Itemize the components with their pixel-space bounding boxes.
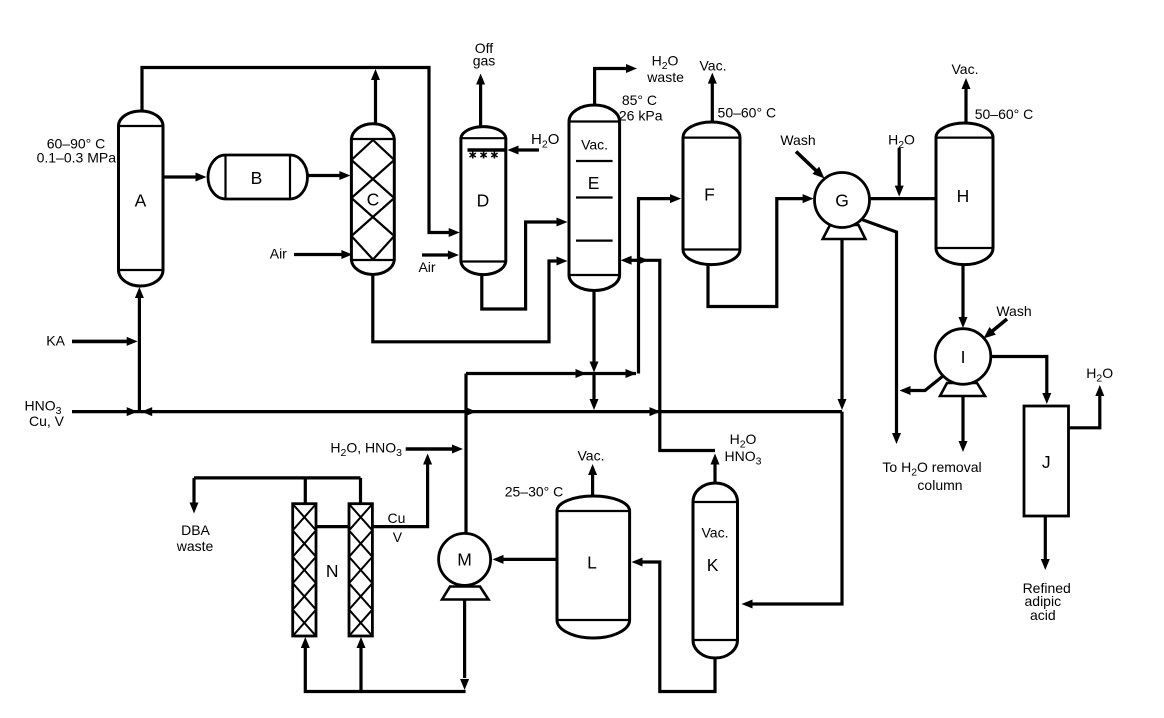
svg-text:column: column	[917, 477, 962, 493]
wire: A to B	[163, 175, 198, 178]
pump M	[442, 587, 489, 600]
vessel E (vacuum still)	[569, 105, 620, 291]
svg-text:Vac.: Vac.	[952, 61, 979, 77]
vessel K (vacuum bleed column)	[693, 483, 738, 658]
wire: F bottoms up into G	[708, 199, 805, 307]
vessel B (horizontal drum)	[208, 155, 308, 199]
svg-text:Vac.: Vac.	[578, 448, 605, 464]
wire: air feed into D	[422, 253, 450, 256]
wire: F vacuum vent	[711, 83, 714, 122]
wire: KA feed line	[72, 340, 129, 344]
vessel J (dryer)	[1024, 406, 1069, 516]
svg-text:Wash: Wash	[780, 132, 815, 148]
pump/centrifuge G	[823, 225, 866, 239]
vessel A (oxidation column)	[119, 111, 164, 286]
wire: G to H	[870, 197, 937, 200]
wire: K bottoms to L	[640, 562, 715, 692]
wire: B to C	[308, 174, 343, 177]
wire: H2O feed onto G-H line	[898, 148, 901, 188]
wire: H vacuum vent	[964, 88, 967, 123]
wire: I bottom discharge arrow	[961, 396, 964, 442]
svg-text:waste: waste	[646, 69, 684, 85]
wire: K overhead vapor arrow	[713, 464, 716, 483]
wire: A overhead line to D inlet	[142, 68, 452, 233]
wire: H2O wash into D spray	[516, 148, 539, 151]
wire: C bottoms to E lower feed	[373, 261, 559, 342]
wire: L to M	[501, 558, 557, 561]
svg-text:A: A	[135, 190, 147, 210]
vessel C (packed NOx absorber with X lattice)	[351, 124, 394, 275]
svg-text:50–60° C: 50–60° C	[975, 106, 1034, 122]
svg-text:C: C	[367, 189, 380, 209]
wire: E bottoms down to acid header	[592, 291, 595, 363]
svg-text:Air: Air	[418, 259, 435, 275]
svg-text:N: N	[326, 561, 339, 581]
vessel N (twin ion-exchange beds)	[293, 504, 316, 636]
vessel D (off-gas water scrubber)	[461, 127, 506, 275]
svg-text:H: H	[957, 186, 970, 206]
wire: main nitric acid recycle header	[72, 410, 842, 413]
wire: riser from acid header up into vessel A bottom	[138, 297, 141, 412]
svg-text:I: I	[961, 347, 966, 367]
wire: D off-gas vent	[479, 84, 482, 126]
wire: G underflow diagonal to H2O removal line	[861, 219, 896, 434]
wire: H2O HNO3 makeup feed	[406, 447, 455, 451]
wire: riser feeding E side and F	[639, 199, 673, 374]
wire: junction arrows into E right side and to K drop line	[629, 259, 639, 262]
svg-text:E: E	[588, 173, 600, 193]
wire: H bottoms into I	[961, 265, 964, 318]
svg-text:G: G	[835, 190, 849, 210]
wash feed arrow into G	[796, 152, 817, 172]
wire: branch line from acid riser to E/F feed riser	[466, 372, 636, 375]
svg-text:26 kPa: 26 kPa	[619, 107, 663, 123]
wire: M discharge to N bottoms	[463, 600, 466, 679]
vessel F (crystallizer)	[683, 122, 740, 265]
wire: Cu V recovery return from N	[316, 525, 349, 528]
spray header inside D	[468, 148, 506, 152]
svg-text:M: M	[457, 550, 472, 570]
svg-text:D: D	[477, 190, 490, 210]
svg-text:V: V	[393, 529, 403, 545]
wire: J water vapor outlet	[1069, 395, 1100, 428]
svg-text:gas: gas	[473, 53, 496, 69]
svg-text:0.1–0.3 MPa: 0.1–0.3 MPa	[37, 150, 117, 166]
wire: L vacuum vent	[591, 474, 594, 496]
svg-text:50–60° C: 50–60° C	[718, 104, 777, 120]
svg-text:DBA: DBA	[181, 522, 210, 538]
svg-text:Vac.: Vac.	[702, 525, 729, 541]
vessel L (cooled crystallizer drum)	[557, 496, 630, 638]
wire: G discharge down across header into K	[840, 239, 843, 400]
svg-text:Wash: Wash	[996, 303, 1031, 319]
svg-text:KA: KA	[46, 333, 65, 349]
wire: N tops header to DBA waste	[304, 478, 307, 504]
wire: J product outlet	[1044, 516, 1047, 560]
svg-text:Air: Air	[270, 246, 287, 262]
wire: C overhead vapor riser into overhead line	[374, 80, 377, 123]
svg-text:acid: acid	[1030, 607, 1056, 623]
svg-text:L: L	[587, 553, 597, 573]
wire: bleed feed riser into M	[464, 374, 467, 534]
wire: I to J	[991, 357, 1047, 396]
svg-text:85° C: 85° C	[622, 92, 657, 108]
wire: E overhead to H2O waste	[595, 69, 628, 106]
pump/centrifuge I	[940, 383, 985, 396]
svg-text:B: B	[251, 168, 263, 188]
wire: I underflow to H2O removal line	[908, 376, 943, 391]
svg-text:Vac.: Vac.	[700, 58, 727, 74]
wash feed arrow into I	[990, 319, 1007, 333]
svg-text:Cu: Cu	[388, 510, 406, 526]
vessel H (crystallizer)	[936, 123, 993, 265]
svg-text:25–30° C: 25–30° C	[505, 484, 564, 500]
svg-text:Vac.: Vac.	[581, 137, 608, 153]
svg-text:F: F	[704, 184, 715, 204]
svg-text:Cu, V: Cu, V	[29, 413, 65, 429]
svg-text:J: J	[1042, 452, 1051, 472]
svg-text:waste: waste	[176, 538, 214, 554]
svg-text:K: K	[707, 555, 719, 575]
wire: air feed into C	[294, 253, 344, 256]
wire: D bottoms to E mid feed	[482, 222, 559, 309]
